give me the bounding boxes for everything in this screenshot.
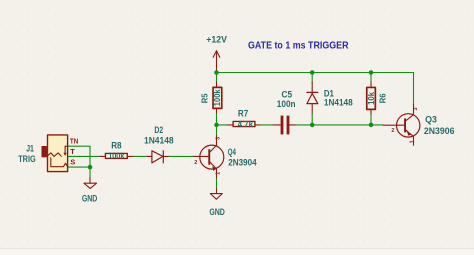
svg-text:R8: R8 — [111, 140, 121, 150]
ground J1 — [84, 178, 97, 189]
wire Q4 emitter to GND — [216, 178, 218, 188]
svg-text:Q3: Q3 — [425, 114, 437, 124]
svg-text:1: 1 — [215, 172, 221, 175]
wire D2 to Q4 base — [169, 155, 194, 157]
svg-text:C5: C5 — [282, 90, 293, 100]
wire J1 N pin — [68, 146, 90, 167]
connector J1 audio jack — [42, 135, 69, 172]
svg-text:S: S — [70, 157, 75, 166]
svg-text:3: 3 — [215, 137, 221, 140]
wire R5 bottom to R7 — [217, 124, 228, 126]
junction node Q4 collector — [214, 123, 219, 128]
svg-text:10k: 10k — [367, 91, 376, 105]
svg-text:100n: 100n — [277, 99, 296, 109]
wire top rail — [217, 73, 414, 105]
svg-text:2N3906: 2N3906 — [424, 126, 455, 136]
wire C5 to D1 node — [296, 124, 312, 126]
wire J1 T pin to R8 — [68, 155, 100, 157]
junction J1 S node — [88, 165, 93, 170]
wire R7 to C5 — [260, 124, 273, 126]
wire S node to GND — [89, 167, 91, 178]
wire junction down to Q4 collector — [216, 125, 218, 136]
svg-text:2N3904: 2N3904 — [228, 158, 257, 168]
svg-text:1: 1 — [410, 140, 416, 143]
svg-text:100k: 100k — [213, 89, 222, 106]
svg-text:3: 3 — [413, 107, 419, 110]
diode D1 — [307, 73, 318, 125]
wire D1 node to R6 node — [312, 124, 371, 126]
svg-text:+12V: +12V — [206, 35, 227, 45]
svg-text:R6: R6 — [378, 93, 387, 103]
svg-text:T: T — [70, 147, 75, 156]
svg-text:2: 2 — [391, 128, 394, 134]
svg-text:R5: R5 — [201, 93, 210, 103]
svg-text:GND: GND — [82, 194, 98, 204]
wire J1 S pin — [68, 166, 90, 168]
svg-text:4.7k: 4.7k — [238, 120, 254, 129]
power symbol +12V — [213, 51, 220, 73]
junction top rail at D1 — [310, 70, 315, 75]
resistor R7 — [228, 109, 261, 129]
wire R8 to D2 — [134, 155, 147, 157]
junction node D1 bottom — [310, 123, 315, 128]
resistor R6 — [367, 73, 388, 125]
junction top rail at R5 — [214, 70, 219, 75]
svg-text:J1: J1 — [26, 144, 34, 154]
junction node R6 bottom — [369, 123, 374, 128]
svg-text:R7: R7 — [238, 109, 248, 119]
svg-text:2: 2 — [194, 160, 197, 166]
resistor R5 — [201, 73, 223, 125]
svg-text:GATE to 1 ms TRIGGER: GATE to 1 ms TRIGGER — [248, 40, 349, 51]
wire R6 node to Q3 base — [371, 124, 383, 126]
diode D2 — [147, 151, 169, 163]
junction top rail at R6 — [369, 70, 374, 75]
ground Q4 — [210, 189, 222, 199]
svg-text:GND: GND — [209, 207, 225, 217]
svg-text:TN: TN — [70, 137, 78, 146]
svg-text:Q4: Q4 — [228, 147, 236, 157]
svg-text:100k: 100k — [108, 152, 125, 161]
transistor Q4 2N3904 — [194, 136, 224, 179]
capacitor C5 — [273, 90, 296, 135]
svg-text:TRIG: TRIG — [18, 154, 36, 164]
svg-text:1N4148: 1N4148 — [324, 98, 353, 108]
svg-text:1N4148: 1N4148 — [144, 135, 174, 145]
transistor Q3 2N3906 — [383, 104, 420, 145]
resistor R8 — [100, 140, 134, 160]
svg-text:D2: D2 — [154, 125, 163, 135]
